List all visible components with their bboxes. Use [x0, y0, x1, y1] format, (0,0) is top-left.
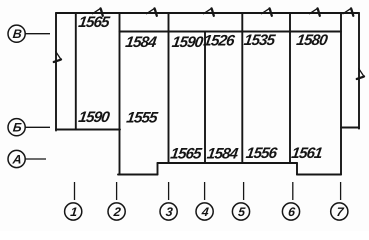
- tick above circle 5: [243, 182, 245, 200]
- axis circle 6: [282, 203, 299, 220]
- break mark on top line 1: [93, 8, 101, 13]
- break mark on top line 6: [343, 8, 351, 13]
- tick above circle 3: [168, 182, 170, 200]
- axis circle V: [8, 25, 25, 42]
- axis circle 4: [196, 203, 213, 220]
- break mark on right measure line: [359, 69, 364, 77]
- svg-text:1556: 1556: [245, 145, 279, 162]
- wire right wall: [340, 13, 342, 175]
- tick above circle 6: [292, 182, 294, 200]
- tick above circle 1: [74, 182, 76, 200]
- wire wall V5: [241, 13, 243, 163]
- svg-text:1584: 1584: [124, 34, 158, 51]
- break mark on top line 3: [204, 8, 212, 13]
- svg-text:1590: 1590: [171, 34, 205, 51]
- wire inner top wall line: [120, 31, 342, 33]
- axis circle 5: [232, 203, 249, 220]
- wire wall V3: [168, 13, 170, 163]
- axis circle A: [8, 150, 25, 167]
- svg-text:1526: 1526: [202, 33, 236, 50]
- axis circle 1: [65, 203, 82, 220]
- wire axis B horizontal wall: [56, 129, 120, 131]
- svg-text:1584: 1584: [206, 145, 240, 162]
- wire wall V4: [204, 32, 206, 164]
- axis stub line B (middle): [26, 126, 51, 128]
- axis stub line B (top): [26, 33, 51, 35]
- svg-text:1555: 1555: [125, 110, 159, 127]
- break mark on top line 4: [262, 8, 270, 13]
- svg-text:1565: 1565: [77, 14, 111, 31]
- wire left wall V1: [75, 13, 77, 130]
- wire top wall line: [56, 12, 359, 14]
- axis circle 2: [108, 203, 125, 220]
- wire bottom left bump wall: [118, 174, 158, 176]
- svg-text:1565: 1565: [169, 145, 203, 162]
- wire bottom middle wall: [158, 162, 298, 164]
- break mark on top line 2: [147, 8, 155, 13]
- break mark on top line 5: [310, 8, 318, 13]
- axis circle B: [8, 119, 25, 136]
- axis circle 7: [331, 203, 348, 220]
- wire right tie at axis B: [341, 127, 359, 129]
- wire bottom right bump wall: [297, 174, 341, 176]
- wire wall V2: [119, 13, 121, 175]
- svg-text:1535: 1535: [243, 32, 277, 49]
- axis stub line A: [26, 158, 47, 160]
- svg-text:1580: 1580: [295, 32, 329, 49]
- tick above circle 4: [204, 182, 206, 200]
- wire right step edge: [296, 163, 298, 175]
- wire wall V6: [289, 13, 291, 163]
- tick above circle 7: [340, 182, 342, 200]
- axis circle 3: [160, 203, 177, 220]
- break mark on left measure line: [56, 52, 61, 60]
- svg-text:1590: 1590: [77, 109, 111, 126]
- wire left step edge: [157, 163, 159, 175]
- svg-text:1561: 1561: [290, 145, 323, 162]
- wire right outer measure line: [358, 13, 360, 129]
- wire left outer measure line: [55, 13, 57, 131]
- tick above circle 2: [116, 182, 118, 200]
